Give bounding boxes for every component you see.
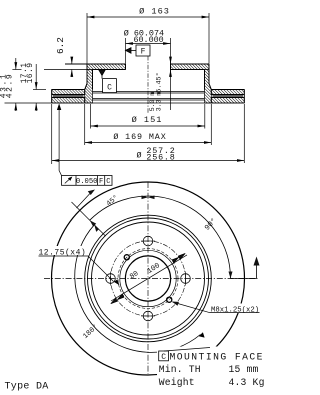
hat outer wall edges bbox=[85, 64, 212, 90]
arc end arrow at 135deg bbox=[90, 220, 97, 226]
double arrow at top axis bbox=[142, 196, 155, 200]
hatched hat top left section bbox=[87, 64, 126, 70]
svg-text:4.3 Kg: 4.3 Kg bbox=[229, 377, 265, 388]
svg-text:Ø 163: Ø 163 bbox=[139, 7, 170, 17]
circle Ø80 dashed bbox=[118, 249, 178, 309]
dim Ø163 bbox=[87, 13, 209, 64]
svg-text:C: C bbox=[107, 84, 112, 93]
Ø80/Ø100 diagonal dimension line bbox=[111, 253, 187, 303]
runout symbol bbox=[65, 178, 71, 183]
outer circle Ø257 bbox=[52, 182, 245, 375]
svg-text:42.9: 42.9 bbox=[6, 73, 15, 99]
C mounting face note bbox=[159, 348, 210, 361]
dim Ø169 MAX bbox=[85, 104, 212, 145]
section centerline bbox=[147, 56, 149, 113]
svg-text:256.8: 256.8 bbox=[146, 153, 175, 163]
svg-text:180°: 180° bbox=[81, 323, 100, 341]
svg-text:Weight: Weight bbox=[159, 377, 195, 388]
hat top surface bbox=[65, 63, 209, 65]
arc end arrow at 315deg bbox=[199, 332, 205, 337]
circle Ø151 bbox=[92, 222, 205, 335]
svg-text:Ø: Ø bbox=[137, 151, 142, 161]
hatched hat wall left section bbox=[85, 70, 93, 104]
bolt hole bottom bbox=[141, 311, 155, 321]
bolt hole right bbox=[181, 272, 191, 286]
hatched friction plate bottom-left bbox=[52, 98, 85, 104]
friction ring top faces bbox=[52, 89, 245, 91]
svg-text:45°: 45° bbox=[105, 193, 121, 208]
vertical centerline bbox=[147, 182, 149, 374]
FCF leader arrow bbox=[77, 190, 96, 209]
friction inner edges bbox=[85, 90, 212, 104]
vent slot inner lines right bbox=[213, 95, 244, 96]
label 12.75(x4) bbox=[37, 246, 89, 255]
svg-text:100: 100 bbox=[146, 262, 162, 276]
datum F flag bbox=[126, 45, 151, 56]
bolt hole top bbox=[141, 236, 155, 246]
svg-text:MOUNTING FACE: MOUNTING FACE bbox=[170, 352, 264, 363]
vent slot inner lines left bbox=[53, 95, 84, 96]
circle Ø163 bbox=[88, 218, 209, 339]
hatched hat wall right section bbox=[205, 70, 212, 104]
svg-text:16.9: 16.9 bbox=[26, 63, 35, 84]
bolt circle Ø100 dash-dot bbox=[111, 241, 186, 316]
dim 6.2 bbox=[44, 57, 87, 77]
text block mask bbox=[157, 347, 265, 391]
svg-text:Ø 169 MAX: Ø 169 MAX bbox=[113, 132, 166, 142]
hidden vent lines between hat walls bbox=[93, 92, 205, 101]
svg-text:F: F bbox=[141, 48, 146, 57]
M8 hole upper-left bbox=[124, 255, 129, 260]
disc bottom face line with left extension bbox=[5, 102, 245, 104]
M8 hole lower-right bbox=[167, 297, 172, 302]
svg-text:15 mm: 15 mm bbox=[229, 364, 259, 375]
svg-text:C: C bbox=[161, 353, 166, 362]
svg-text:C: C bbox=[106, 178, 110, 186]
svg-text:60.000: 60.000 bbox=[134, 35, 164, 45]
rotation direction arrow bbox=[231, 257, 260, 279]
svg-text:3.3 m: 3.3 m bbox=[156, 92, 163, 112]
svg-text:0.050: 0.050 bbox=[76, 178, 98, 186]
small vertical dim arrows at bore edge bbox=[170, 58, 172, 78]
hatched hat top right section bbox=[171, 64, 210, 70]
arc end arrow at 0deg bbox=[229, 272, 233, 279]
dim 43.1/42.9 bbox=[12, 58, 21, 111]
section outline bbox=[52, 64, 245, 103]
svg-text:Ø 151: Ø 151 bbox=[132, 115, 163, 125]
dim Ø151 bbox=[91, 104, 205, 129]
dim Ø257.2/256.8 bbox=[52, 104, 245, 164]
hub circle bbox=[120, 250, 176, 306]
bolt hole left bbox=[106, 272, 116, 286]
horizontal centerline bbox=[44, 278, 258, 280]
angular dim arc 0..135 bbox=[90, 196, 231, 278]
hatched friction plate top-left bbox=[52, 90, 85, 95]
svg-text:Min. TH: Min. TH bbox=[159, 364, 201, 375]
svg-text:6.2: 6.2 bbox=[55, 37, 66, 54]
hatched friction plate bottom-right bbox=[211, 98, 244, 104]
dim Ø60.074/60.000 bbox=[126, 38, 171, 110]
datum C flag (section) bbox=[99, 70, 117, 93]
vent slot mouth edges bbox=[52, 95, 245, 98]
hat inner wall edges bbox=[93, 70, 205, 90]
svg-text:80: 80 bbox=[129, 270, 141, 281]
bore circle Ø60 bbox=[125, 256, 170, 301]
bore edges bbox=[126, 64, 171, 70]
circle Ø169 bbox=[85, 215, 212, 342]
hat underside bbox=[93, 69, 205, 71]
svg-text:M8x1.25(x2): M8x1.25(x2) bbox=[211, 306, 259, 314]
45deg radial line bbox=[72, 202, 106, 236]
hatched friction plate top-right bbox=[211, 90, 244, 95]
label M8x1.25(x2) bbox=[208, 304, 261, 314]
angular dim arc 135..315 (180deg) bbox=[75, 225, 201, 353]
svg-text:5.45°: 5.45° bbox=[155, 72, 164, 92]
friction ring outer faces bbox=[52, 90, 245, 104]
svg-text:Type DA: Type DA bbox=[5, 382, 49, 393]
feature control frame 0.050 FC bbox=[57, 103, 112, 185]
arc end arrow at 135deg (inner) bbox=[94, 225, 99, 232]
svg-text:F: F bbox=[99, 178, 103, 186]
dim 17.1/16.9 bbox=[33, 64, 46, 111]
